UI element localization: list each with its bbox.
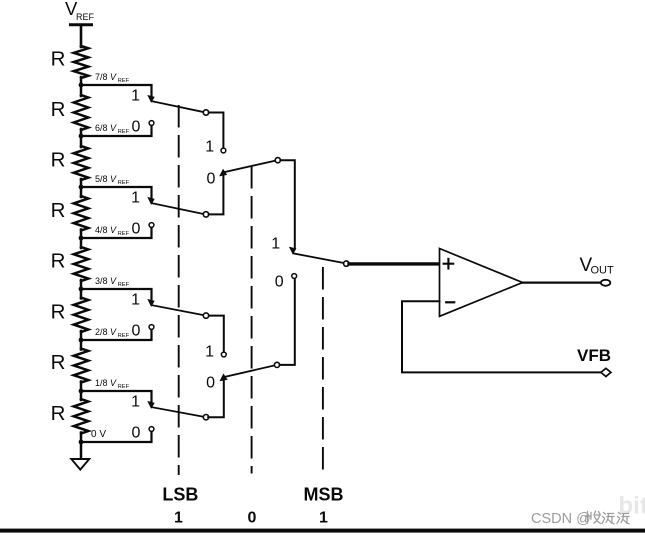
node tap 3 <box>79 185 84 190</box>
svg-text:LSB: LSB <box>162 485 198 505</box>
terminal VFB <box>601 368 611 376</box>
terminal VOUT <box>601 280 610 286</box>
svg-text:R: R <box>51 300 66 323</box>
switch S6 arm <box>225 365 274 376</box>
bottom rule <box>0 529 645 533</box>
wire VREF to R1 <box>80 25 83 47</box>
svg-text:0: 0 <box>132 425 141 442</box>
label 7/8 VREF <box>95 72 130 84</box>
MSB bit select dashed line <box>322 268 324 471</box>
switch S2 common pole <box>203 212 208 217</box>
switch S6 contact 0 (triangle) <box>221 375 227 381</box>
svg-text:0: 0 <box>248 510 257 527</box>
svg-text:bit: bit <box>619 493 645 520</box>
switch S4 contact 1 (triangle) <box>148 402 153 408</box>
svg-text:0: 0 <box>206 375 215 392</box>
wire tap 7 to switch S4 contact 1 <box>81 391 152 403</box>
svg-text:1: 1 <box>319 510 328 527</box>
wire tap 1 to switch S1 contact 1 <box>81 85 152 97</box>
wire S1 common to S5 contact 1 <box>209 113 224 149</box>
switch S4 arm <box>152 407 203 417</box>
svg-text:0: 0 <box>132 119 141 136</box>
switch S3 contact 1 (triangle) <box>148 300 153 306</box>
ground <box>71 459 89 470</box>
svg-text:0: 0 <box>275 273 284 290</box>
switch S2 contact 1 (triangle) <box>148 198 153 204</box>
label 1/8 VREF <box>95 378 130 390</box>
VREF terminal bar <box>71 23 92 26</box>
switch S3 common pole <box>203 313 208 318</box>
switch S7 common pole <box>344 261 349 266</box>
svg-text:4/8 V: 4/8 V <box>95 225 117 235</box>
resistor R7 <box>51 349 89 383</box>
svg-text:1: 1 <box>131 87 140 104</box>
switch S5 common pole <box>275 158 280 163</box>
svg-text:1: 1 <box>205 139 214 156</box>
svg-text:1: 1 <box>131 291 140 308</box>
LSB bit select dashed line <box>178 106 180 474</box>
wire ladder segment below R5 <box>80 280 83 299</box>
switch S5 contact 0 (triangle) <box>220 170 226 176</box>
node tap 4 <box>79 236 84 241</box>
resistor R8 <box>51 399 89 433</box>
svg-text:1: 1 <box>271 235 280 252</box>
wire tap 3 to switch S2 contact 1 <box>81 187 152 199</box>
wire tap 2 to switch S1 contact 0 <box>81 125 152 136</box>
svg-text:OUT: OUT <box>591 265 615 277</box>
wire tap 5 to switch S3 contact 1 <box>81 289 152 301</box>
switch S3 contact 0 (circle) <box>149 325 154 330</box>
wire tap 4 to switch S2 contact 0 <box>81 227 152 238</box>
svg-text:1: 1 <box>174 510 183 527</box>
svg-text:0: 0 <box>132 221 141 238</box>
wire S4 common to S6 contact 0 <box>208 381 224 417</box>
svg-text:REF: REF <box>118 78 130 84</box>
svg-text:6/8 V: 6/8 V <box>95 123 117 133</box>
label 3/8 VREF <box>95 276 130 288</box>
switch S1 contact 1 (triangle) <box>148 96 153 102</box>
label 4/8 VREF <box>95 225 130 237</box>
switch S4 contact 0 (circle) <box>149 427 154 432</box>
svg-text:1: 1 <box>131 189 140 206</box>
switch S5 contact 1 (circle) <box>221 148 226 153</box>
wire feedback VFB to op-amp - input <box>402 301 601 372</box>
wire ladder segment below R3 <box>80 179 83 197</box>
label 0 V <box>91 429 106 440</box>
watermark CSDN @shouwanwan <box>531 511 629 527</box>
wire ladder segment below R8 <box>80 433 83 460</box>
svg-text:VFB: VFB <box>577 346 611 365</box>
svg-text:5/8 V: 5/8 V <box>95 174 117 184</box>
svg-text:1/8 V: 1/8 V <box>95 378 117 388</box>
svg-text:R: R <box>51 250 66 273</box>
svg-text:R: R <box>51 402 66 425</box>
resistor R1 <box>51 46 89 78</box>
wire ladder segment below R2 <box>80 129 83 147</box>
svg-text:1: 1 <box>205 343 214 360</box>
wire ladder segment below R6 <box>80 331 83 350</box>
wire S3 common to S6 contact 1 <box>209 316 224 352</box>
svg-text:REF: REF <box>118 333 130 339</box>
svg-text:3/8 V: 3/8 V <box>95 276 117 286</box>
label 5/8 VREF <box>95 174 130 186</box>
svg-text:1: 1 <box>131 393 140 410</box>
svg-text:MSB: MSB <box>304 485 344 505</box>
resistor R5 <box>51 247 89 281</box>
switch S2 contact 0 (circle) <box>149 223 154 228</box>
wire tap 6 to switch S3 contact 0 <box>81 329 152 340</box>
node tap 8 <box>79 440 84 445</box>
wire S6 common to S7 contact 0 <box>280 278 295 365</box>
wire ladder segment below R4 <box>80 230 83 249</box>
node tap 7 <box>79 389 84 394</box>
wire S5 common to S7 contact 1 <box>280 160 294 248</box>
switch S4 common pole <box>203 415 208 420</box>
switch S5 arm <box>225 161 275 172</box>
svg-text:R: R <box>51 351 66 374</box>
svg-text:REF: REF <box>118 129 130 135</box>
label 2/8 VREF <box>95 327 130 339</box>
svg-text:0: 0 <box>132 323 141 340</box>
svg-text:REF: REF <box>118 282 130 288</box>
svg-text:R: R <box>51 199 66 222</box>
svg-text:2/8 V: 2/8 V <box>95 327 117 337</box>
switch S1 arm <box>152 101 203 112</box>
wire ladder segment below R1 <box>80 77 83 96</box>
svg-text:R: R <box>51 98 66 121</box>
switch S1 common pole <box>203 110 208 115</box>
svg-text:0: 0 <box>207 170 216 187</box>
svg-text:REF: REF <box>118 384 130 390</box>
switch S7 contact 0 (circle) <box>292 274 297 279</box>
wire tap 8 to switch S4 contact 0 <box>81 431 152 442</box>
label VOUT <box>580 255 615 277</box>
resistor R3 <box>51 146 89 180</box>
node tap 1 <box>79 83 84 88</box>
node tap 5 <box>79 287 84 292</box>
svg-text:REF: REF <box>118 180 130 186</box>
svg-text:7/8 V: 7/8 V <box>95 72 117 82</box>
label 6/8 VREF <box>95 123 130 135</box>
op-amp U1 <box>440 249 523 317</box>
resistor R2 <box>51 95 89 130</box>
wire op-amp output to VOUT <box>522 282 601 284</box>
switch S1 contact 0 (circle) <box>149 121 154 126</box>
label VREF <box>65 0 95 22</box>
resistor R4 <box>51 196 89 230</box>
svg-text:REF: REF <box>118 231 130 237</box>
node tap 2 <box>79 134 84 139</box>
wire S7 common to op-amp + input <box>349 262 439 265</box>
switch S3 arm <box>152 305 203 315</box>
switch S7 contact 1 (triangle) <box>290 248 296 254</box>
svg-text:R: R <box>51 48 66 71</box>
switch S6 common pole <box>274 362 279 367</box>
resistor R6 <box>51 298 89 332</box>
svg-text:R: R <box>51 149 66 172</box>
switch S6 contact 1 (circle) <box>221 352 226 357</box>
node tap 6 <box>79 338 84 343</box>
wire S2 common to S5 contact 0 <box>209 176 224 214</box>
switch S7 (MSB) arm <box>293 253 343 263</box>
svg-text:CSDN @: CSDN @ <box>531 511 591 527</box>
switch S2 arm <box>152 203 203 214</box>
svg-text:0 V: 0 V <box>91 429 106 440</box>
svg-text:REF: REF <box>76 12 95 22</box>
middle bit select dashed line <box>251 167 253 473</box>
wire ladder segment below R7 <box>80 382 83 401</box>
